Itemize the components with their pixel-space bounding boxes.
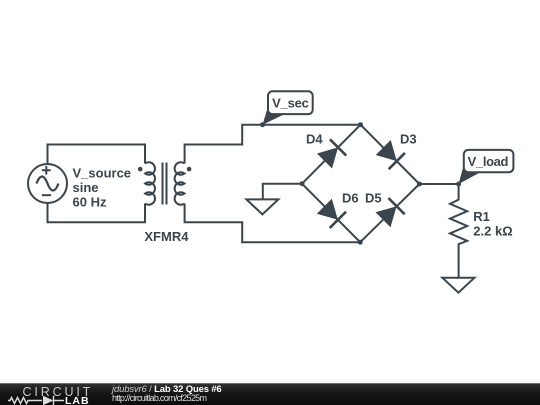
footer url line — [112, 393, 206, 403]
flag V_sec pointer — [263, 111, 285, 125]
voltage source V_source circle — [28, 164, 67, 203]
resistor R1 zigzag — [450, 184, 467, 278]
transformer primary polarity dot — [138, 167, 143, 172]
flag V_load pointer — [459, 169, 481, 184]
node V_load / R1 top — [456, 182, 461, 187]
svg-text:LAB: LAB — [65, 395, 90, 405]
wire bridge bottom-right branch — [360, 184, 419, 242]
svg-text:D3: D3 — [400, 131, 417, 146]
wire right node to R1 — [419, 183, 458, 185]
diode D5 — [375, 198, 405, 228]
flag V_sec box — [268, 91, 313, 114]
svg-text:V_source: V_source — [73, 166, 132, 181]
ground GND1 symbol — [246, 199, 278, 214]
node top of bridge — [358, 122, 363, 127]
footer bar — [0, 383, 540, 405]
wire primary top — [48, 145, 146, 165]
svg-text:XFMR4: XFMR4 — [144, 229, 189, 244]
svg-text:D6: D6 — [342, 191, 359, 206]
node bottom of bridge — [358, 240, 363, 245]
flag V_load box — [464, 150, 514, 172]
transformer XFMR4 secondary winding — [175, 162, 185, 205]
wire bridge top-left branch — [302, 125, 361, 184]
transformer secondary polarity dot — [187, 167, 192, 172]
diode D3 — [375, 139, 405, 169]
voltage source sine wave — [37, 177, 59, 191]
svg-text:D4: D4 — [306, 131, 323, 146]
svg-text:D5: D5 — [365, 191, 382, 206]
wire primary bottom — [48, 203, 146, 222]
wire secondary top — [185, 125, 361, 164]
svg-text:V_sec: V_sec — [272, 96, 309, 111]
footer title line — [112, 384, 222, 395]
wire bridge bottom-left branch — [302, 184, 360, 243]
transformer core — [163, 163, 167, 205]
voltage source plus sign — [42, 166, 51, 175]
logo squiggle resistor and diode — [8, 398, 42, 404]
diode D4 — [316, 139, 346, 169]
svg-text:2.2 kΩ: 2.2 kΩ — [473, 224, 512, 239]
transformer XFMR4 primary winding — [145, 162, 155, 205]
node left of bridge — [300, 181, 305, 186]
CircuitLab logo — [0, 384, 100, 405]
diode D6 — [316, 198, 346, 228]
svg-text:R1: R1 — [473, 209, 490, 224]
wire bridge top-right branch — [361, 125, 420, 184]
node right of bridge — [417, 182, 422, 187]
ground GND2 symbol — [442, 278, 474, 293]
wire left node to ground — [263, 184, 302, 200]
wire secondary bottom — [185, 204, 361, 243]
svg-text:60 Hz: 60 Hz — [73, 195, 107, 210]
voltage source minus sign — [42, 194, 51, 196]
svg-text:V_load: V_load — [468, 154, 509, 169]
node V_sec attachment — [260, 122, 265, 127]
svg-text:sine: sine — [73, 180, 99, 195]
